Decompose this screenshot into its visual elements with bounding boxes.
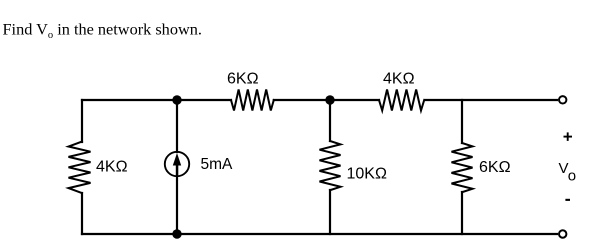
terminal bottom (open circle) <box>559 230 566 237</box>
wire top rail left segment <box>82 99 231 101</box>
label minus <box>565 199 570 201</box>
wire left rail lower <box>81 193 83 234</box>
wire 6K branch lower <box>461 192 463 234</box>
wire top rail middle segment <box>274 99 379 101</box>
wire bottom rail <box>82 233 557 235</box>
current source arrow <box>173 153 181 175</box>
svg-text:10KΩ: 10KΩ <box>347 166 387 183</box>
resistor R 6K right vertical (zigzag) <box>452 143 473 192</box>
svg-text:Vo: Vo <box>559 160 577 185</box>
resistor R 6K top (zigzag) <box>231 90 274 111</box>
svg-text:4KΩ: 4KΩ <box>383 71 415 88</box>
node junction dot A bottom <box>172 229 181 238</box>
resistor R 4K top (zigzag) <box>379 90 424 111</box>
svg-text:6KΩ: 6KΩ <box>227 71 259 88</box>
svg-text:Find Vo in the network shown.: Find Vo in the network shown. <box>3 20 202 42</box>
svg-text:5mA: 5mA <box>201 156 234 173</box>
svg-text:6KΩ: 6KΩ <box>479 159 511 176</box>
label plus <box>564 132 573 141</box>
resistor R 4K left vertical (zigzag) <box>69 142 91 194</box>
resistor R 10K vertical (zigzag) <box>320 141 341 190</box>
wire 6K branch upper <box>461 100 463 143</box>
node junction dot A top <box>172 95 181 104</box>
wire left rail upper <box>81 100 83 142</box>
wire 10K branch lower <box>329 190 331 234</box>
svg-text:4KΩ: 4KΩ <box>96 159 128 176</box>
wire current source branch upper <box>176 100 178 152</box>
current source circle (5mA) <box>165 152 189 176</box>
node junction dot B top <box>325 95 334 104</box>
wire top rail right segment <box>425 99 557 101</box>
wire 10K branch upper <box>329 100 331 141</box>
terminal top (open circle) <box>559 96 566 103</box>
wire current source branch lower <box>176 176 178 234</box>
